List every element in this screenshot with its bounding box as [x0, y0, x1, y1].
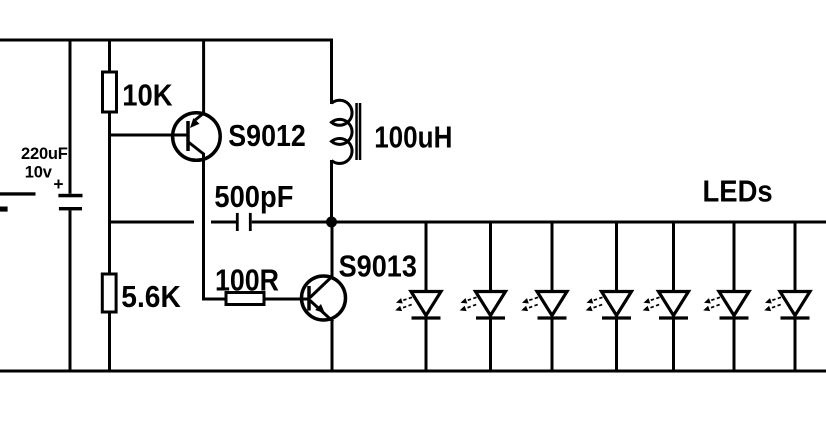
LED D7 emission arrow lower [771, 305, 781, 308]
transistor Q2 emitter arrowhead [315, 304, 325, 314]
wire Q1 emitter vertical lead [202, 39, 205, 115]
LED D6 emission arrow lower [710, 305, 720, 308]
transistor Q2 collector diagonal [310, 277, 332, 298]
wire D2 cathode lead [489, 318, 492, 373]
LED D4 emission arrow upper [593, 297, 603, 300]
svg-text:100uH: 100uH [374, 120, 452, 154]
resistor R1 10K body [103, 72, 117, 112]
LED D1 emission arrow lower [402, 305, 412, 308]
LED D2 emission arrow lower [467, 305, 477, 308]
svg-text:5.6K: 5.6K [121, 280, 181, 314]
LED D5 emission arrow upper [650, 297, 660, 300]
svg-text:S9013: S9013 [339, 250, 417, 284]
wire D1 anode lead [425, 221, 428, 294]
LED D5 [643, 221, 689, 373]
svg-text:10v: 10v [25, 163, 53, 181]
LED D3 emission arrow lower [528, 305, 538, 308]
LED D5 cathode bar [659, 316, 688, 319]
wire D3 anode lead [551, 221, 554, 294]
wire D5 anode lead [672, 221, 675, 294]
wire D6 cathode lead [733, 318, 736, 373]
transistor Q2 base bar [307, 286, 311, 311]
LED D2 emission arrow upper [467, 297, 477, 300]
battery BT1 negative plate [0, 207, 8, 212]
wire top positive rail [0, 39, 333, 42]
wire 500pF right lead to capacitor [211, 221, 236, 224]
resistor R3 100R body [226, 293, 264, 305]
LED D1 cathode bar [412, 316, 441, 319]
LED D7 cathode bar [781, 316, 810, 319]
wire Q2 emitter vertical lead [331, 320, 334, 371]
wire divider column [108, 112, 111, 276]
wire 10K resistor top lead [108, 39, 111, 75]
svg-text:100R: 100R [215, 263, 279, 297]
wire D7 anode lead [794, 221, 797, 294]
svg-text:10K: 10K [122, 79, 172, 113]
LED D7 [764, 221, 810, 373]
wire capacitor C1 top lead [69, 39, 72, 194]
LED D6 triangle [719, 292, 749, 316]
LED D1 emission arrow upper [403, 297, 413, 300]
wire R3 to Q2 base [264, 298, 309, 301]
wire D4 cathode lead [615, 318, 618, 373]
inductor L1 core bar 1 [355, 103, 358, 160]
LED D4 emission arrow lower [593, 305, 603, 308]
LED D1 [395, 221, 441, 373]
LED D4 triangle [602, 292, 632, 316]
LED D6 cathode bar [720, 316, 749, 319]
svg-text:S9012: S9012 [228, 119, 305, 153]
LED D2 cathode bar [476, 316, 505, 319]
wire D2 anode lead [489, 221, 492, 294]
wire LED anode rail [332, 221, 826, 224]
wire D1 cathode lead [425, 318, 428, 373]
battery BT1 positive plate [0, 192, 36, 195]
svg-text:500pF: 500pF [214, 180, 293, 214]
inductor L1 100uH coil [332, 100, 353, 163]
LED D7 emission arrow upper [772, 297, 782, 300]
LED D5 emission arrow lower [650, 305, 660, 308]
LED D4 cathode bar [602, 316, 631, 319]
LED D3 cathode bar [538, 316, 567, 319]
wire capacitor C1 bottom lead [69, 210, 72, 371]
LED D2 [460, 221, 506, 373]
svg-text:+: + [53, 174, 63, 194]
LED D5 triangle [659, 292, 689, 316]
LED D3 [521, 221, 567, 373]
wire Q1 collector vertical down [204, 153, 227, 299]
LED D4 [586, 221, 632, 373]
wire 500pF left segment from divider [108, 221, 194, 224]
wire Q2 collector vertical lead [331, 222, 334, 277]
LED D1 triangle [411, 292, 441, 316]
LED D3 emission arrow upper [529, 297, 539, 300]
transistor Q2 S9013 circle [302, 276, 346, 320]
wire D4 anode lead [615, 221, 618, 294]
transistor Q1 S9012 circle [173, 113, 221, 161]
transistor Q1 emitter arrowhead [190, 118, 200, 128]
capacitor C1 220uF bottom plate [59, 207, 82, 210]
wire bottom ground rail [0, 370, 826, 373]
resistor R2 5.6K body [102, 274, 116, 312]
capacitor C2 500pF left plate [236, 213, 239, 231]
transistor Q1 emitter diagonal [195, 113, 205, 121]
LED D6 [703, 221, 749, 373]
transistor Q2 emitter diagonal [310, 301, 333, 322]
LED D7 triangle [780, 292, 810, 316]
LED D3 triangle [537, 292, 567, 316]
capacitor C2 500pF right plate [249, 213, 252, 231]
LED D2 triangle [476, 292, 506, 316]
wire D3 cathode lead [551, 318, 554, 373]
wire D7 cathode lead [794, 318, 797, 373]
wire Q1 base lead [108, 134, 187, 137]
wire C2 to junction [252, 221, 332, 224]
transistor Q1 base bar [186, 121, 190, 151]
wire inductor bottom lead [330, 160, 333, 222]
svg-text:220uF: 220uF [21, 145, 68, 163]
wire 5.6K resistor bottom lead [108, 312, 111, 371]
wire inductor top lead [330, 39, 333, 105]
LED D6 emission arrow upper [711, 297, 721, 300]
svg-text:LEDs: LEDs [703, 174, 773, 208]
inductor L1 core bar 2 [359, 103, 362, 160]
wire D5 cathode lead [672, 318, 675, 373]
transistor Q1 collector diagonal [188, 142, 204, 155]
wire D6 anode lead [733, 221, 736, 294]
capacitor C1 220uF top plate [58, 194, 82, 198]
junction node dot [326, 217, 337, 228]
